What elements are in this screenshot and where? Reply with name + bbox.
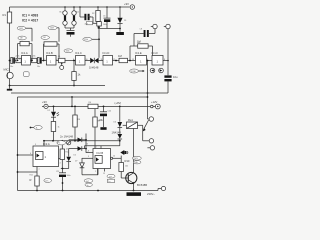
node after P1 (73, 60, 75, 72)
resistor R9 (73, 106, 77, 141)
svg-text:C10: C10 (108, 111, 111, 113)
svg-text:IC2.B: IC2.B (97, 151, 104, 155)
svg-text:4: 4 (60, 163, 61, 165)
svg-text:4n7: 4n7 (85, 23, 88, 25)
terminal circles top right (151, 24, 170, 28)
diode D9 (69, 146, 87, 151)
svg-text:10M: 10M (50, 28, 54, 30)
relay coil Re1 (123, 118, 143, 129)
oval label D8 area (60, 134, 74, 138)
diode D6 (112, 106, 123, 134)
IC2.A (33, 142, 59, 167)
resistor R7 (113, 54, 136, 63)
lamp BL1 (63, 7, 67, 28)
terminal +9V (124, 2, 135, 9)
battery bar (127, 192, 142, 196)
svg-text:IC1.F: IC1.F (152, 51, 159, 55)
resistor R11 (30, 176, 40, 191)
diode D7 zener (66, 149, 71, 169)
svg-text:14: 14 (95, 147, 97, 149)
svg-text:+9V: +9V (124, 2, 129, 6)
pin numbers gates (19, 59, 165, 61)
resistor R3 (16, 58, 21, 62)
svg-text:C8: C8 (140, 29, 142, 31)
svg-text:8: 8 (73, 59, 74, 61)
svg-text:R5: R5 (138, 42, 140, 44)
svg-text:P2: P2 (58, 143, 60, 145)
svg-text:1: 1 (19, 59, 20, 61)
svg-text:220k: 220k (16, 56, 20, 58)
resistor R4 (31, 58, 37, 62)
svg-text:D7: D7 (75, 161, 77, 163)
potentiometer P1 (56, 58, 76, 69)
capacitor C2 (37, 57, 47, 63)
svg-text:9: 9 (88, 156, 89, 158)
svg-text:R11: R11 (30, 175, 33, 177)
wire return y93 (11, 92, 168, 94)
wire x147 vertical (147, 60, 149, 119)
resistor R2 (96, 7, 100, 29)
bottom labels (30, 110, 139, 187)
relay contact 1 (148, 117, 154, 121)
svg-text:BL1: BL1 (60, 12, 63, 14)
relay contact 3 (147, 146, 154, 150)
svg-text:+9V: +9V (42, 100, 47, 104)
svg-text:3: 3 (31, 59, 32, 61)
svg-text:2: 2 (95, 171, 96, 173)
svg-text:1k: 1k (58, 127, 60, 129)
diode D1 zener (117, 7, 122, 29)
svg-text:D6: D6 (114, 122, 116, 124)
LED D2 (51, 106, 59, 121)
value box top (86, 22, 101, 26)
svg-text:12: 12 (113, 59, 115, 61)
wire IC2.A bottom (17, 167, 37, 177)
relay blade (142, 120, 148, 141)
wire y141 (44, 140, 120, 142)
value oval A2 (18, 36, 26, 40)
svg-text:IC1.A: IC1.A (21, 51, 28, 55)
svg-text:47k: 47k (66, 149, 69, 151)
svg-text:D3: D3 (86, 144, 88, 146)
op-amp gate IC1.E (135, 51, 147, 65)
svg-text:100n: 100n (67, 175, 71, 177)
value oval A1 (17, 26, 32, 41)
svg-text:100n: 100n (87, 16, 91, 18)
svg-text:10n: 10n (10, 66, 13, 68)
svg-text:100k: 100k (66, 51, 70, 53)
wire bus and ground (98, 28, 124, 35)
resistor R10 (93, 107, 104, 149)
diode D10 (80, 158, 85, 175)
wire left frame vertical (17, 97, 19, 191)
capacitor C11 (59, 169, 66, 191)
node mic input (9, 60, 11, 62)
svg-text:MIC1: MIC1 (4, 68, 11, 72)
svg-text:1n: 1n (87, 185, 89, 187)
resistor R1 (3, 7, 12, 23)
svg-text:10: 10 (113, 156, 115, 158)
terminal output (147, 186, 166, 195)
capacitor C5 (80, 7, 93, 24)
transistor T1 (126, 172, 148, 190)
svg-text:11: 11 (101, 59, 103, 61)
op-amp gate IC1.D (103, 51, 113, 65)
svg-text:BC548B: BC548B (137, 183, 147, 187)
wire IC2.A pins (17, 140, 63, 159)
wire bottom rail (18, 190, 159, 192)
svg-text:1N4148: 1N4148 (112, 130, 122, 134)
svg-text:8: 8 (88, 151, 89, 153)
svg-text:R2: R2 (92, 13, 94, 15)
op-amp gate IC1.C (75, 51, 85, 65)
wire join lower left (61, 168, 69, 170)
indicator circle 1 (150, 68, 155, 73)
wire top +9V rail (10, 6, 130, 8)
wire IC2.B top feedback (85, 146, 120, 149)
svg-text:C11: C11 (56, 171, 59, 173)
svg-text:1M: 1M (20, 38, 23, 40)
ground rail upper (9, 85, 105, 87)
value oval B1 (48, 26, 59, 42)
svg-text:10n: 10n (37, 66, 40, 68)
wire lamps join (65, 28, 74, 31)
svg-text:10k: 10k (125, 166, 128, 168)
value texts chain (10, 13, 142, 73)
wire D10 to IC2.B (82, 169, 98, 175)
resistor R12 (60, 141, 64, 169)
svg-text:1M: 1M (43, 37, 46, 39)
op-amp gate IC1.B (46, 51, 56, 65)
svg-text:13: 13 (132, 59, 134, 61)
wire IC2.B output (113, 156, 130, 163)
resistor R5 feedback (130, 40, 153, 61)
svg-text:R8: R8 (78, 119, 80, 121)
speaker icon (120, 150, 127, 155)
capacitor C8 feedback (134, 29, 155, 46)
svg-text:10: 10 (86, 59, 88, 61)
svg-text:6: 6 (30, 153, 31, 155)
svg-text:220k: 220k (84, 39, 88, 41)
capacitor C4 electrolytic (67, 31, 75, 37)
value oval TONE (130, 69, 145, 73)
microphone MIC1 (4, 68, 14, 86)
oval labels near transistor (107, 174, 115, 182)
svg-text:4k7: 4k7 (86, 181, 89, 183)
capacitor C9 electrolytic (164, 75, 178, 93)
svg-text:D2: D2 (48, 110, 50, 112)
op-amp gate IC1.A (21, 51, 31, 65)
value ovals switch (132, 156, 141, 164)
op-amp gate IC1.F (147, 51, 169, 65)
value oval B2 (41, 36, 49, 40)
svg-text:R1: R1 (3, 13, 7, 17)
resistor R13 (119, 163, 128, 179)
svg-text:100u: 100u (103, 24, 107, 26)
svg-text:5: 5 (44, 59, 45, 61)
value ovals bottom left pair (84, 179, 93, 187)
wire left vertical to mic node (9, 23, 11, 72)
wire +12V feed (48, 106, 150, 108)
svg-text:IC1.D: IC1.D (103, 51, 110, 55)
node marker with oval label (30, 126, 43, 130)
ground symbol (7, 86, 12, 91)
svg-text:P1: P1 (58, 56, 60, 58)
wire right vertical from IC1.F output (167, 29, 169, 75)
terminal +9V lower (42, 100, 48, 109)
relay contact 2 (143, 139, 154, 143)
feedback resistor IC1.A (17, 41, 33, 61)
svg-text:15: 15 (103, 173, 105, 175)
wire vert x72 (71, 97, 73, 106)
wire IC2.B bottom pins (98, 169, 105, 175)
svg-text:+12V: +12V (151, 100, 158, 104)
indicator circle 2 (159, 68, 164, 73)
svg-text:R12: R12 (66, 152, 69, 154)
resistor R6 to ground (72, 72, 81, 87)
lamp BL2 (72, 7, 76, 28)
value oval R11 (44, 179, 52, 183)
svg-text:R6: R6 (89, 102, 91, 104)
svg-text:R9: R9 (98, 121, 100, 123)
svg-text:R: R (30, 178, 32, 182)
potentiometer P2 (57, 141, 71, 145)
wire supply y97 (18, 96, 148, 98)
svg-text:IC1.E: IC1.E (135, 51, 142, 55)
svg-text:Re1: Re1 (128, 118, 133, 122)
svg-text:IC1.C: IC1.C (75, 51, 82, 55)
svg-text:230V: 230V (134, 158, 139, 160)
resistor R6 (88, 102, 98, 108)
svg-text:BL2: BL2 (76, 12, 79, 14)
capacitor C10 electrolytic (100, 107, 107, 130)
terminal +12V (151, 100, 161, 109)
svg-text:IC1.B: IC1.B (46, 51, 53, 55)
diode D8 (69, 134, 87, 149)
lamp labels (60, 12, 80, 14)
svg-text:C6: C6 (103, 16, 105, 18)
value oval P1 (64, 49, 73, 53)
svg-text:10M: 10M (19, 28, 23, 30)
svg-text:230V~: 230V~ (147, 192, 155, 196)
svg-text:8: 8 (164, 59, 165, 61)
svg-text:IC2 = 4017: IC2 = 4017 (22, 19, 38, 23)
svg-text:22n: 22n (45, 180, 48, 182)
capacitor C1 (11, 57, 16, 63)
svg-text:1n: 1n (108, 181, 110, 183)
svg-text:220k: 220k (32, 56, 36, 58)
svg-text:7: 7 (39, 169, 40, 171)
svg-text:2x 1N4148: 2x 1N4148 (60, 134, 74, 138)
mic label box (24, 72, 30, 77)
resistor R8 (51, 122, 56, 141)
svg-text:1N4148: 1N4148 (89, 65, 99, 69)
value oval mid (83, 37, 99, 41)
svg-text:10u: 10u (173, 75, 178, 79)
capacitor C6 electrolytic (104, 7, 111, 29)
svg-text:TONE: TONE (131, 71, 137, 73)
feedback resistor IC1.B (44, 42, 60, 62)
svg-text:4k7: 4k7 (109, 177, 112, 179)
svg-text:R10: R10 (125, 159, 130, 163)
svg-text:2: 2 (147, 59, 148, 61)
svg-text:4: 4 (57, 59, 58, 61)
svg-text:D1: D1 (124, 20, 126, 22)
svg-text:(+9V): (+9V) (115, 101, 122, 105)
wire collector vertical (133, 129, 135, 173)
svg-text:IC1 = 4093: IC1 = 4093 (22, 14, 38, 18)
svg-text:3: 3 (35, 144, 36, 146)
diode pair D2 D3 (85, 58, 103, 70)
text IC designations (22, 14, 38, 23)
svg-text:D5: D5 (74, 155, 76, 157)
node diode vertical (98, 26, 100, 58)
wire IC2.B left pins (82, 149, 93, 159)
diode D11 (118, 134, 123, 146)
IC2.B (93, 149, 113, 169)
